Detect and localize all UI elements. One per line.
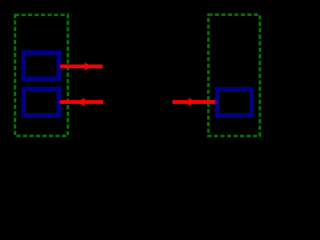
component B2 (blue box bottom-left) xyxy=(24,89,59,115)
component B1 (blue box top-left) xyxy=(24,53,59,79)
arrowhead A2 (mid-line, pointing left) xyxy=(78,98,85,106)
arrowhead A1 (mid-line, pointing right) xyxy=(85,62,91,70)
wire A3 (red line into B3) xyxy=(172,100,215,104)
node host-left (green dashed box) xyxy=(15,15,68,136)
arrowhead A3 (mid-line, pointing right) xyxy=(189,98,195,106)
wire A1 (red line from B1 rightward) xyxy=(60,65,103,69)
wire A2 (red line into B2) xyxy=(60,100,103,104)
component B3 (blue box right) xyxy=(217,89,252,115)
node host-right (green dashed box) xyxy=(208,15,259,136)
